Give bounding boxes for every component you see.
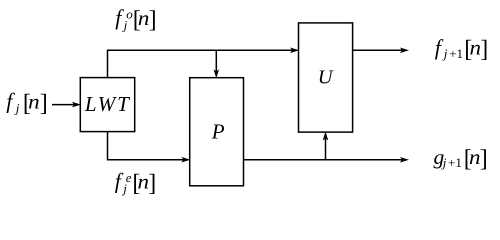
box P [190, 78, 244, 186]
wire branch down to P [215, 50, 217, 71]
arrowhead into P left [181, 157, 190, 163]
svg-text:LWT: LWT [84, 92, 131, 116]
wire LWT top vertical [107, 50, 109, 77]
wire bottom rail from P [244, 159, 403, 161]
arrowhead into U left [290, 48, 299, 54]
arrowhead into LWT [72, 102, 81, 108]
svg-text:P: P [211, 120, 225, 144]
svg-text:]: ] [40, 91, 48, 117]
arrowhead into U bottom [323, 131, 329, 140]
wire LWT bottom vertical [107, 132, 109, 160]
box LWT [80, 78, 134, 132]
wire input fj [52, 104, 75, 106]
svg-text:]: ] [480, 37, 488, 63]
arrowhead output f [400, 48, 409, 54]
wire branch up to U [325, 139, 327, 160]
svg-text:+1: +1 [448, 155, 462, 170]
svg-text:]: ] [480, 146, 488, 172]
svg-text:+1: +1 [449, 46, 463, 61]
wire U output [353, 49, 403, 51]
svg-text:]: ] [149, 7, 157, 33]
svg-text:U: U [318, 67, 334, 89]
arrowhead output g [400, 157, 409, 163]
svg-text:n: n [28, 90, 40, 114]
wire bottom to P [107, 159, 184, 161]
wire top rail [107, 49, 293, 51]
arrowhead into P top [214, 69, 220, 78]
svg-text:]: ] [148, 170, 156, 196]
box U [299, 23, 353, 132]
